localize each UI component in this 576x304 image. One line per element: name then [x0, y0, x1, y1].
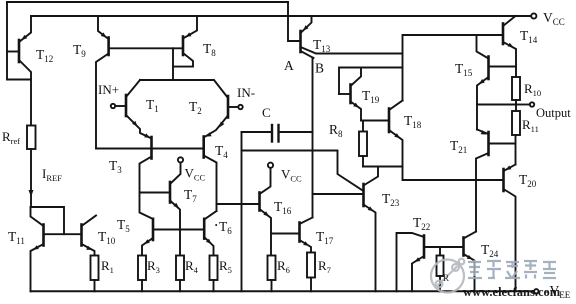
- svg-text:R: R: [443, 273, 449, 283]
- resistor R8: [359, 121, 367, 167]
- svg-text:T2: T2: [189, 99, 202, 116]
- terminal Vcc (top right): [531, 13, 536, 18]
- resistor R10: [512, 77, 520, 105]
- resistor R7: [307, 253, 315, 292]
- svg-text:R4: R4: [185, 258, 199, 275]
- wire: T12 base/collector bias line (top, y=2): [7, 1, 288, 3]
- svg-text:C: C: [262, 105, 271, 120]
- wire: T19 emitter to T18 base: [361, 120, 389, 122]
- svg-text:R7: R7: [318, 258, 331, 275]
- svg-text:T5: T5: [117, 217, 130, 234]
- svg-text:T13: T13: [313, 37, 331, 54]
- svg-text:IN+: IN+: [98, 82, 119, 97]
- wire: node B horizontal with corner and diagonal into T23 base: [242, 151, 364, 192]
- terminal Vcc (T16 collector): [268, 163, 273, 168]
- wire: cap-left vertical down to VEE rail (taps T16 base line): [241, 132, 243, 291]
- wire: B-node branch to T23 base: [313, 193, 364, 195]
- transistor T13 (dual-collector PNP): [288, 2, 403, 58]
- transistor T22 (mirrored): [397, 233, 425, 291]
- svg-text:T3: T3: [109, 158, 122, 175]
- transistor T16: [217, 168, 272, 256]
- svg-text:Rref: Rref: [2, 129, 20, 146]
- transistor T12 (PNP, diode-connected): [7, 16, 31, 80]
- wire: T11/T10 base line: [44, 233, 82, 235]
- transistor T14 (output NPN): [503, 16, 516, 77]
- svg-text:www.elecfans.com: www.elecfans.com: [463, 285, 561, 299]
- wire: T5/T6 base line: [153, 229, 204, 231]
- wire: T19 bias line y=67.5: [339, 68, 403, 95]
- transistor T24: [464, 232, 477, 292]
- svg-text:T21: T21: [450, 138, 467, 155]
- svg-text:R10: R10: [524, 81, 541, 98]
- svg-text:T17: T17: [316, 229, 334, 246]
- resistor Rref: [27, 80, 36, 150]
- svg-text:IREF: IREF: [42, 166, 62, 183]
- svg-text:T1: T1: [146, 97, 159, 114]
- resistor R12: [437, 247, 444, 291]
- wire: node B vertical from T13 collector B down to T17 collector: [312, 58, 314, 218]
- svg-text:T20: T20: [519, 172, 537, 189]
- svg-text:T11: T11: [8, 229, 25, 246]
- transistor T21 (mirrored): [476, 130, 516, 232]
- svg-text:R8: R8: [329, 122, 343, 139]
- svg-text:VCC: VCC: [281, 167, 302, 184]
- svg-text:T22: T22: [413, 215, 430, 232]
- svg-text:T19: T19: [362, 88, 380, 105]
- svg-text:B: B: [315, 61, 324, 76]
- svg-text:VCC: VCC: [185, 166, 206, 183]
- node dot before T6: [215, 224, 217, 226]
- watermark text 电子发烧友: [468, 260, 556, 279]
- svg-text:T10: T10: [98, 229, 116, 246]
- resistor R5: [210, 256, 218, 292]
- wire: output node line and terminal: [477, 102, 534, 106]
- svg-text:T8: T8: [203, 41, 216, 58]
- transistor T18: [389, 101, 403, 167]
- transistor T5: [142, 219, 153, 256]
- resistor R1: [91, 256, 99, 292]
- transistor T8 (PNP, diode-connected): [173, 16, 197, 80]
- terminal Vcc (T7 collector): [178, 157, 183, 162]
- svg-text:T23: T23: [382, 191, 400, 208]
- svg-text:R1: R1: [101, 258, 114, 275]
- transistor T23: [364, 167, 379, 292]
- transistor T4 (PNP, mirrored): [204, 132, 217, 211]
- transistor T7: [140, 163, 181, 256]
- transistor T2 (NPN input, mirrored): [204, 80, 243, 138]
- svg-text:T15: T15: [455, 61, 473, 78]
- wire: VEE bottom rail: [31, 290, 534, 292]
- svg-text:T6: T6: [219, 219, 232, 236]
- svg-text:T9: T9: [73, 42, 86, 59]
- transistor T3 (PNP): [140, 133, 154, 219]
- svg-text:T4: T4: [215, 143, 228, 160]
- svg-text:T12: T12: [36, 47, 53, 64]
- wire: T3/T4 common base line from T9 collector: [96, 148, 204, 150]
- transistor T9 (PNP, mirrored): [96, 16, 109, 149]
- svg-text:R5: R5: [219, 258, 232, 275]
- transistor T15 (mirrored NPN): [477, 35, 517, 130]
- transistor T6: [204, 211, 216, 256]
- transistor T17: [271, 218, 313, 253]
- wire: T1/T2 common collector line: [140, 79, 213, 81]
- resistor R6: [268, 256, 276, 292]
- transistor T1 (NPN input): [111, 80, 152, 139]
- svg-text:T16: T16: [274, 199, 292, 216]
- wire: T22/T24 base line: [424, 246, 464, 248]
- wire: T9 base to T8 base: [109, 47, 183, 49]
- svg-text:T14: T14: [520, 28, 538, 45]
- transistor T10: [82, 216, 97, 256]
- wire: T23 collector line to T20 base: [363, 167, 504, 181]
- svg-text:A: A: [284, 58, 294, 73]
- svg-text:R3: R3: [147, 258, 160, 275]
- svg-text:T7: T7: [184, 187, 197, 204]
- transistor T11 (diode-connected): [31, 207, 44, 291]
- resistor R4: [176, 256, 184, 292]
- svg-text:T18: T18: [404, 113, 422, 130]
- wire: IREF branch down to T11/T10 bases: [29, 149, 65, 234]
- transistor T19 (diode-connected): [339, 68, 361, 121]
- capacitor C: [242, 125, 313, 142]
- svg-text:IN-: IN-: [237, 85, 255, 100]
- wire: left vertical rail x=5 down to Rref jog: [7, 2, 31, 80]
- wire: node A vertical and T14 base line: [403, 35, 504, 101]
- wire: VCC rail y=16.5: [31, 15, 531, 17]
- svg-text:VCC: VCC: [543, 10, 565, 27]
- svg-text:R6: R6: [277, 258, 290, 275]
- transistor T20 (PNP output): [504, 165, 516, 292]
- resistor R11: [512, 105, 520, 165]
- svg-text:T24: T24: [481, 242, 499, 259]
- watermark logo circle: [431, 259, 464, 293]
- svg-text:Output: Output: [536, 106, 571, 120]
- resistor R3: [138, 256, 146, 292]
- terminal VEE (bottom right): [534, 289, 538, 293]
